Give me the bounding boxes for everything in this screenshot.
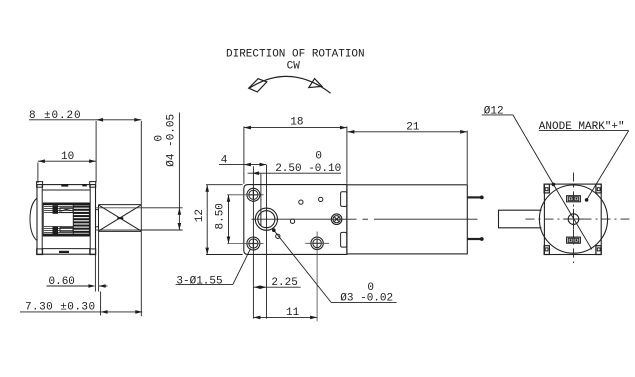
pin hole A — [299, 200, 303, 204]
screw M1 top-left inner — [249, 190, 258, 199]
armature top band — [43, 203, 89, 206]
label Ø12 underline — [482, 114, 513, 116]
dimension 8.50 line — [228, 195, 230, 244]
pin hole D — [276, 234, 280, 238]
screw M1 top-left outer — [247, 188, 260, 201]
dimension Ø4 arrow down — [178, 223, 182, 230]
extension line shaft center — [266, 165, 268, 319]
vertical center line (end view) — [573, 173, 575, 264]
dimension 12 arrow down — [205, 248, 209, 255]
motor terminal lower — [467, 238, 481, 240]
label ANODE MARK leader — [587, 131, 629, 200]
dimension 2.50 line — [248, 172, 341, 174]
shaft neck lower line — [96, 226, 99, 228]
extension line 7.30 left reference — [100, 292, 102, 316]
brush detail upper — [60, 208, 73, 213]
extension line motor left face — [37, 163, 39, 184]
screw M2 bottom-left outer — [247, 237, 260, 250]
dimension 2.50 arrow — [252, 171, 259, 175]
housing tab top-right — [596, 184, 601, 193]
worm top edge — [99, 204, 142, 206]
svg-text:Ø12: Ø12 — [484, 105, 504, 117]
screw M3 center line vertical — [316, 232, 318, 322]
winding lines lower — [44, 227, 73, 233]
motor left end cap — [41, 185, 43, 255]
dimension Ø4 line — [178, 113, 180, 231]
dimension 4 arrow left — [244, 163, 251, 167]
worm helix diagonal 2 — [99, 205, 141, 231]
output worm shaft (end view side) — [499, 210, 542, 228]
screw M4 cross — [334, 216, 340, 222]
shaft crosshair — [563, 209, 583, 229]
dimension 0.60 arrow right — [88, 284, 95, 288]
dimension 11 line — [253, 316, 317, 318]
extension line gearbox bottom — [206, 254, 243, 256]
label ANODE MARK underline — [539, 130, 629, 132]
center line (top view) — [252, 218, 478, 220]
dimension 12 line — [206, 185, 208, 255]
gearbox outline (top view) — [244, 185, 347, 255]
extension line motor right — [466, 131, 468, 184]
brush detail lower — [60, 228, 73, 232]
housing tab bottom-right — [596, 246, 601, 255]
commutator stripes — [73, 206, 89, 233]
screw M2 cross — [249, 239, 257, 247]
corner tab bottom-left — [37, 249, 43, 255]
dimension 0.60 stub line — [99, 285, 108, 287]
dimension 18 arrow right — [340, 126, 347, 130]
screw M3 bottom-right inner — [313, 239, 322, 248]
corner tab bottom-right — [90, 249, 96, 255]
extension line gearbox top — [206, 184, 243, 186]
worm shaft core upper line — [96, 207, 142, 209]
dimension 21 line — [347, 131, 467, 133]
extension line shaft top — [141, 207, 182, 209]
extension line gearbox/motor joint — [346, 126, 348, 183]
motor right end cap — [89, 185, 91, 255]
motor housing outline (end view) — [544, 184, 601, 254]
extension line screw column — [252, 166, 254, 318]
svg-text:Ø4 -0.05: Ø4 -0.05 — [166, 114, 178, 167]
motor can circle Ø12 — [539, 185, 607, 253]
shaft neck upper line — [96, 209, 99, 211]
extension line gearbox left — [243, 126, 245, 183]
housing tab top-left — [544, 184, 549, 193]
rotation arc arrowhead — [309, 79, 322, 88]
worm helix diagonal 1 — [99, 205, 141, 231]
dimension 12 arrow up — [205, 185, 209, 192]
svg-text:ANODE MARK"+": ANODE MARK"+" — [539, 121, 625, 133]
bottom edge tick — [59, 251, 69, 253]
dimension 11 arrow right — [310, 316, 317, 320]
extension line motor right face — [95, 121, 97, 183]
label Ø12 leader — [513, 115, 554, 184]
brush block lower — [53, 226, 59, 234]
pin hole C — [290, 219, 294, 223]
armature bottom band — [43, 234, 89, 237]
label Ø12 leader continuation — [553, 184, 591, 249]
svg-text:3-Ø1.55: 3-Ø1.55 — [176, 276, 222, 288]
dimension 8 arrow right — [134, 118, 141, 122]
screw M4 right inner — [333, 216, 340, 223]
label Ø12 leader dot — [552, 183, 556, 187]
screw M1 cross — [249, 191, 257, 199]
label ANODE MARK leader dot — [585, 198, 589, 202]
dimension 4 arrow right — [260, 163, 267, 167]
dimension 21 arrow left — [347, 130, 354, 134]
motor can inner top edge — [42, 189, 90, 191]
terminal block top — [567, 196, 581, 202]
screw M2 center line — [227, 243, 263, 245]
brush block upper — [53, 205, 59, 214]
dimension 4 line — [219, 164, 267, 166]
terminal block bottom — [567, 237, 581, 243]
dimension 10 arrow right — [89, 159, 96, 163]
svg-text:CW: CW — [287, 60, 301, 72]
dimension 21 arrow right — [460, 130, 467, 134]
label 3-Ø1.55 leader — [233, 249, 251, 285]
screw M4 right outer — [331, 214, 342, 225]
rotation direction arc — [249, 76, 331, 93]
dimension 8 line — [29, 119, 141, 121]
shaft hole circle — [568, 214, 579, 225]
dimension 7.30 line — [20, 311, 142, 313]
top edge tick 1 — [61, 184, 68, 187]
motor body outline (side view) — [37, 185, 96, 255]
svg-text:18: 18 — [290, 117, 303, 129]
housing tab bottom-left — [544, 246, 549, 255]
dimension 0.60 line — [47, 285, 89, 287]
dimension 0.60 arrow left — [99, 284, 106, 288]
extension line worm start lower — [98, 232, 100, 292]
dimension 10 line — [38, 160, 96, 162]
svg-text:8.50: 8.50 — [214, 203, 226, 229]
dimension 8.50 arrow down — [227, 237, 231, 244]
label Ø3 leader — [274, 230, 332, 302]
extension line motor face lower — [94, 255, 96, 292]
dimension 7.30 arrow right — [135, 310, 142, 314]
dimension 2.25 arrow right — [260, 285, 267, 289]
extension line worm end — [140, 121, 142, 316]
svg-text:0: 0 — [154, 135, 166, 142]
corner tab top-left — [37, 182, 43, 188]
dimension 8.50 arrow up — [227, 195, 231, 202]
winding lines upper — [44, 206, 73, 212]
extension line shaft bottom — [141, 229, 182, 231]
dimension 11 arrow left — [253, 316, 260, 320]
motor end bulge arc — [30, 198, 37, 240]
top edge tick 2 — [82, 184, 87, 186]
horizontal center line (end view) — [526, 218, 633, 220]
label 3-Ø1.55 underline — [176, 284, 233, 286]
output shaft D-flat chord — [260, 213, 262, 227]
dimension Ø4 arrow up — [178, 208, 182, 215]
worm bottom edge — [99, 230, 142, 232]
rotation arc tail flag — [249, 79, 267, 92]
screw M3 center line horizontal — [305, 242, 329, 244]
output shaft boss circle — [255, 208, 277, 230]
brush detail squiggle — [61, 209, 72, 211]
svg-text:0: 0 — [315, 150, 322, 162]
motor can inner bottom edge — [42, 248, 90, 250]
output shaft Ø3 circle — [258, 211, 275, 228]
motor outline (top view) — [347, 185, 467, 254]
motor terminal upper — [467, 196, 481, 198]
svg-text:DIRECTION OF ROTATION: DIRECTION OF ROTATION — [226, 48, 365, 60]
dimension 10 arrow left — [38, 159, 45, 163]
label Ø3 leader dot — [272, 228, 276, 232]
corner tab top-right — [90, 182, 96, 188]
worm center mark — [117, 217, 123, 219]
worm shaft core lower line — [96, 229, 142, 231]
motor mounting tab upper — [341, 192, 347, 207]
svg-text:12: 12 — [194, 209, 206, 222]
extension line shaft flat — [260, 174, 262, 212]
dimension 7.30 arrow left — [101, 310, 108, 314]
screw M1 center line — [227, 194, 263, 196]
dimension 18 line — [244, 127, 347, 129]
armature outline — [43, 203, 89, 236]
worm left edge — [98, 205, 100, 232]
dimension 2.25 arrow left — [254, 285, 261, 289]
dimension 2.25 line — [254, 286, 301, 288]
label Ø3 underline — [331, 302, 396, 304]
motor mounting tab lower — [341, 232, 347, 247]
screw M3 bottom-right outer — [311, 237, 323, 249]
screw M2 bottom-left inner — [249, 239, 258, 248]
dimension 18 arrow left — [244, 126, 251, 130]
pin hole B — [319, 197, 323, 201]
screw M3 cross — [313, 239, 321, 247]
dimension 8 arrow left — [96, 118, 103, 122]
